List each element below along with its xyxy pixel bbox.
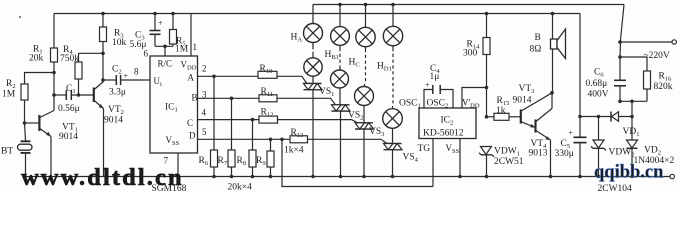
lamp HA2: [304, 58, 322, 76]
svg-text:10k: 10k: [112, 38, 127, 48]
svg-text:TG: TG: [418, 144, 431, 154]
svg-text:VD2: VD2: [644, 146, 661, 157]
svg-text:HA: HA: [291, 33, 303, 44]
svg-text:KD-56012: KD-56012: [423, 129, 464, 139]
terminal 220V lower: [670, 174, 674, 178]
svg-text:2: 2: [202, 64, 207, 74]
svg-text:330μ: 330μ: [555, 149, 574, 159]
svg-text:VS2: VS2: [348, 111, 363, 122]
svg-text:www.dltdl.cn: www.dltdl.cn: [21, 164, 184, 191]
wire IC2 VDD elbow: [462, 88, 487, 109]
wire pin7 VSS stub: [177, 153, 179, 177]
resistor R9: [270, 139, 272, 151]
thyristor VS3: [363, 106, 365, 123]
svg-text:2CW51: 2CW51: [494, 157, 524, 167]
IC2 box KD-56012: [419, 108, 476, 139]
svg-text:20k: 20k: [29, 54, 44, 64]
svg-text:R/C: R/C: [158, 59, 173, 69]
svg-text:0.68μ: 0.68μ: [586, 79, 608, 89]
lamp HD2: [383, 109, 403, 129]
svg-text:OSC1: OSC1: [399, 99, 421, 110]
svg-text:VDW1: VDW1: [494, 147, 520, 158]
svg-text:1M: 1M: [175, 45, 189, 55]
svg-text:HB1: HB1: [325, 50, 339, 61]
svg-text:1k×4: 1k×4: [284, 146, 304, 156]
svg-text:VT2: VT2: [108, 105, 124, 116]
svg-text:+: +: [569, 129, 574, 138]
svg-text:+: +: [158, 19, 163, 28]
wire mains top rail: [313, 4, 624, 6]
resistor R2: [24, 73, 26, 85]
wire mains drop column: [620, 5, 624, 58]
svg-text:~220V: ~220V: [644, 51, 670, 61]
svg-text:BT: BT: [1, 147, 13, 157]
svg-text:8: 8: [134, 67, 139, 77]
resistor R8: [252, 120, 254, 150]
thyristor VS1: [312, 76, 314, 83]
resistor R15: [487, 116, 495, 118]
svg-text:B: B: [535, 33, 541, 43]
resistor R14: [486, 14, 488, 38]
svg-text:6: 6: [144, 49, 149, 59]
resistor R16: [620, 57, 647, 71]
svg-text:R10: R10: [260, 64, 273, 75]
svg-text:R13: R13: [291, 128, 304, 139]
svg-text:HC: HC: [349, 58, 360, 69]
capacitor C5: [579, 14, 581, 138]
capacitor C4: [424, 90, 433, 109]
terminal 220V upper: [620, 41, 672, 43]
svg-text:R12: R12: [261, 108, 274, 119]
lamp HA1: [312, 5, 314, 24]
svg-text:C1: C1: [66, 84, 76, 95]
resistor R5: [172, 14, 174, 30]
svg-text:3: 3: [202, 90, 207, 100]
svg-text:1: 1: [193, 42, 198, 52]
svg-text:OSC2: OSC2: [427, 99, 449, 110]
wire row D pin5: [198, 138, 291, 140]
resistor R4: [78, 79, 80, 95]
transistor VT1: [25, 122, 40, 124]
resistor R11: [259, 95, 277, 102]
svg-text:A: A: [188, 73, 195, 83]
svg-text:1μ: 1μ: [430, 72, 440, 82]
transistor VT2: [93, 88, 95, 103]
diode VD1: [610, 112, 612, 122]
lamp HB2: [331, 70, 349, 88]
svg-text:20k×4: 20k×4: [228, 183, 253, 193]
wire ground bottom rail: [24, 176, 670, 178]
capacitor C1: [54, 94, 66, 96]
wire node R1-R2: [24, 72, 54, 74]
svg-text:1k: 1k: [496, 106, 506, 116]
zener diode VDW1: [481, 147, 492, 155]
svg-text:9014: 9014: [513, 96, 532, 106]
svg-text:C6: C6: [594, 68, 604, 79]
svg-text:+: +: [124, 72, 129, 81]
svg-text:0.56μ: 0.56μ: [58, 104, 80, 114]
lamp HD1: [392, 5, 394, 27]
wire pin6 stub: [164, 46, 166, 56]
capacitor C2: [103, 79, 116, 81]
svg-text:300: 300: [463, 49, 478, 59]
lamp HC2: [355, 87, 374, 106]
zener diode VDW2: [597, 115, 601, 119]
thyristor VS4: [392, 128, 394, 143]
wire IC2 TG stub: [432, 139, 434, 187]
svg-text:4: 4: [202, 108, 207, 118]
wire TG bus: [282, 139, 433, 186]
resistor R12: [259, 116, 278, 123]
speaker B: [552, 14, 554, 40]
resistor R10: [258, 71, 277, 78]
svg-text:5: 5: [202, 127, 207, 137]
svg-text:R7: R7: [218, 156, 228, 167]
resistor R3: [102, 14, 104, 28]
wire +V top rail: [54, 13, 580, 15]
svg-text:+: +: [425, 81, 430, 90]
svg-text:820k: 820k: [654, 82, 673, 92]
transistor VT3: [520, 110, 522, 124]
svg-text:VS4: VS4: [403, 153, 419, 164]
resistor R6: [213, 76, 215, 150]
svg-text:2CW104: 2CW104: [598, 184, 633, 192]
thyristor VS2: [339, 88, 341, 105]
svg-text:C: C: [187, 118, 193, 128]
wire row A pin2: [198, 75, 259, 77]
svg-text:9014: 9014: [104, 116, 123, 126]
svg-text:VD1: VD1: [623, 127, 640, 138]
svg-text:R16: R16: [659, 72, 673, 83]
svg-text:VS1: VS1: [319, 87, 334, 98]
lamp HC1: [365, 5, 367, 28]
capacitor C6: [619, 57, 621, 80]
svg-text:R8: R8: [237, 156, 247, 167]
wire row B pin3: [198, 97, 260, 99]
wire IC2 VSS stub: [459, 139, 461, 177]
scan speck: [19, 16, 21, 18]
wire pin1 VDD stub: [190, 14, 192, 57]
svg-text:9013: 9013: [529, 149, 548, 159]
lamp HB1: [339, 5, 341, 27]
svg-text:9014: 9014: [59, 132, 78, 142]
wire dashed string B: [339, 45, 341, 48]
svg-text:B: B: [192, 93, 198, 103]
wire dashed string C: [365, 47, 367, 49]
resistor R7: [231, 98, 233, 150]
svg-text:D: D: [189, 131, 196, 141]
svg-text:400V: 400V: [588, 90, 609, 100]
svg-text:R9: R9: [256, 156, 266, 167]
op-amp IC1 box SGM168: [150, 56, 198, 153]
svg-text:qqibb.cn: qqibb.cn: [594, 163, 664, 183]
svg-text:750k: 750k: [60, 54, 79, 64]
resistor R13: [290, 136, 308, 143]
diode VD2: [630, 100, 634, 104]
svg-text:VSS: VSS: [446, 143, 460, 155]
svg-text:HD1: HD1: [377, 62, 392, 73]
svg-text:VS3: VS3: [369, 127, 384, 138]
wire row C pin4: [198, 119, 260, 121]
wire R/C node: [155, 45, 173, 47]
svg-text:1M: 1M: [2, 90, 16, 100]
capacitor C3: [154, 14, 156, 31]
wire dashed string A: [312, 43, 314, 47]
wire +V rectified line: [580, 116, 632, 118]
svg-text:8Ω: 8Ω: [530, 45, 542, 55]
piezo element BT: [25, 123, 26, 141]
svg-text:VT3: VT3: [519, 84, 535, 95]
svg-text:VDW2: VDW2: [609, 148, 635, 159]
wire dashed string D: [392, 46, 394, 48]
resistor R1: [53, 14, 55, 49]
svg-text:C2: C2: [112, 65, 122, 76]
transistor VT4: [534, 120, 536, 133]
svg-text:3.3μ: 3.3μ: [109, 88, 126, 98]
svg-text:R2: R2: [6, 79, 16, 90]
svg-text:R11: R11: [261, 87, 274, 98]
svg-text:R6: R6: [199, 156, 209, 167]
